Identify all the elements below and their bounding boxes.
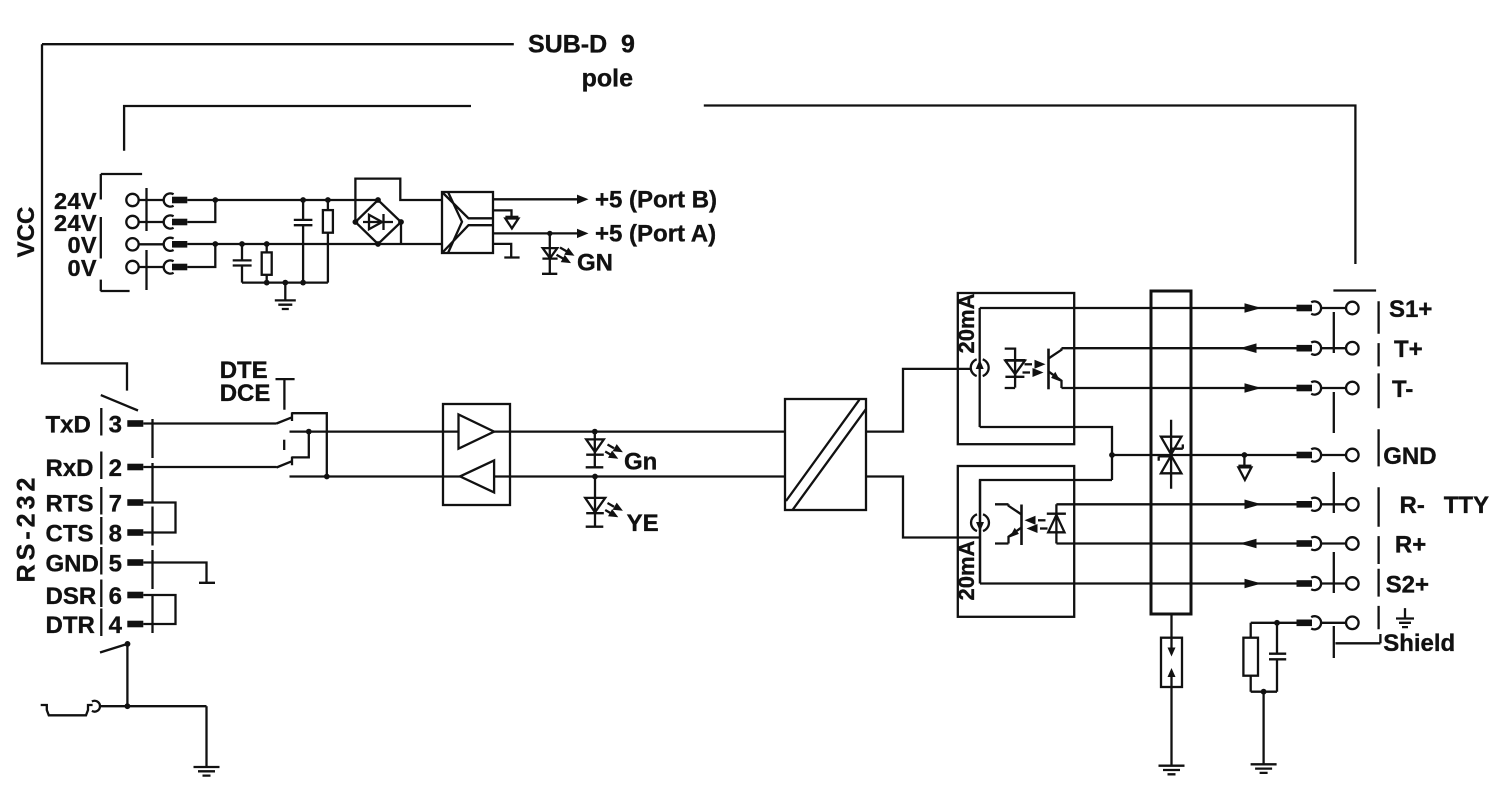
- svg-text:20mA: 20mA: [954, 293, 979, 353]
- ground arrester: [1159, 766, 1185, 775]
- node GND tap dot: [1242, 452, 1248, 458]
- wire bottom filter node: [242, 281, 328, 283]
- wire S2+ terminal: [1321, 582, 1346, 584]
- resistor shield: [1250, 623, 1252, 692]
- wire VCC-to-RS232 left vertical: [42, 44, 127, 390]
- svg-text:Gn: Gn: [624, 448, 657, 475]
- arrowhead R+ (left): [1240, 539, 1257, 549]
- wire S2+ line: [980, 582, 1297, 584]
- terminal circle GND: [1346, 449, 1359, 462]
- node shield cap tap dot: [1274, 620, 1280, 626]
- node junction dot C1 top: [300, 197, 306, 203]
- wire lower loop left vertical: [979, 480, 981, 584]
- svg-text:7: 7: [109, 490, 122, 517]
- svg-text:VCC: VCC: [13, 207, 40, 258]
- pin rect 2: [127, 464, 143, 471]
- terminal pin rect T+: [1297, 345, 1313, 352]
- shield clamp socket arc: [92, 701, 100, 712]
- terminal socket arc row4: [164, 260, 174, 273]
- svg-text:GND: GND: [1383, 443, 1436, 470]
- LED Gn emission arrows: [608, 445, 615, 449]
- terminal pin rect S2+: [1297, 580, 1313, 587]
- TTY connector bracket bottom: [1335, 634, 1380, 643]
- svg-text:0V: 0V: [67, 255, 97, 281]
- node bridge left dot: [353, 219, 359, 225]
- node GND junction dot: [1109, 452, 1115, 458]
- svg-text:6: 6: [109, 583, 122, 610]
- switch actuator T marker: [276, 379, 295, 410]
- ground power filter: [275, 283, 296, 309]
- pin rect 7: [127, 499, 143, 506]
- svg-text:DTR: DTR: [46, 612, 95, 639]
- diode inside bridge: [369, 215, 382, 229]
- wire TxD fixed contact route: [292, 413, 327, 476]
- wire T- line: [1062, 387, 1297, 389]
- node crossover dot upper: [306, 429, 312, 435]
- optocoupler LED upper: [1005, 349, 1026, 388]
- terminal circle 0V-1: [126, 238, 138, 250]
- terminal circle 24V-2: [126, 216, 138, 228]
- terminal pin rect row2: [172, 219, 187, 226]
- wire row2 join to 24V rail: [187, 200, 215, 222]
- terminal socket arc Shield: [1311, 616, 1321, 629]
- phototransistor upper: [1047, 349, 1050, 390]
- wire T+ line: [1062, 347, 1297, 349]
- svg-text:S1+: S1+: [1389, 296, 1432, 323]
- wire +5 Port B output: [493, 198, 579, 200]
- buffer triangle RxD: [460, 460, 494, 492]
- phototransistor emitter arrow upper: [1051, 372, 1060, 382]
- wire +5 Port A output: [493, 232, 579, 234]
- wire 24V rail: [187, 199, 378, 201]
- node junction dot bottom R2: [264, 280, 270, 286]
- LED Gn indicator: [592, 429, 598, 435]
- node bridge right dot: [398, 219, 404, 225]
- terminal socket arc T-: [1311, 381, 1321, 394]
- terminal divider bars right: [1333, 312, 1335, 658]
- svg-text:3: 3: [109, 411, 122, 438]
- node junction dot C2 top: [239, 241, 245, 247]
- TVS diode bidirectional: [1161, 437, 1182, 455]
- wire terminal row4 stub: [139, 266, 164, 268]
- switch blade RxD: [277, 457, 293, 468]
- wire RxD pin to switch: [143, 466, 276, 468]
- arrowhead +5 Port B: [577, 195, 589, 204]
- wire RxD driver to isolation: [510, 475, 785, 477]
- resistor R1: [327, 200, 329, 283]
- svg-text:DSR: DSR: [46, 583, 97, 610]
- wire R- terminal: [1321, 503, 1346, 505]
- arrowhead T+ (left): [1240, 343, 1257, 353]
- current source box lower: [958, 466, 1074, 617]
- node junction dot 0V join: [212, 241, 218, 247]
- current source arrow upper (up): [976, 360, 984, 370]
- wire arrester to ground: [1170, 687, 1172, 766]
- terminal circle S1+: [1346, 302, 1359, 315]
- VCC connector bracket outline (dashed): [101, 174, 143, 291]
- node junction dot R1 top: [325, 197, 331, 203]
- LED GN indicator: [547, 231, 552, 236]
- wire S1+ terminal: [1321, 307, 1346, 309]
- node bridge top dot: [375, 197, 381, 203]
- node RC bottom dot: [1261, 689, 1267, 695]
- node junction dot 24V join: [212, 197, 218, 203]
- wire SUB-D bracket top line: [42, 43, 514, 45]
- label separator bars column: [100, 408, 102, 636]
- TTY connector bracket top: [1333, 289, 1376, 291]
- wire S1+ line: [980, 307, 1297, 309]
- svg-text:GND: GND: [46, 550, 99, 577]
- wire GND pin 5 chassis stub: [143, 563, 215, 583]
- RS-232 transceiver box: [443, 404, 510, 505]
- wire lower stub to chassis bar: [493, 244, 520, 258]
- signal reference triangle GND row: [1243, 455, 1245, 467]
- wire shell to shield rail: [126, 644, 128, 706]
- terminal circle 24V-1: [126, 194, 138, 206]
- pin rect 8: [127, 529, 143, 536]
- ground shield left: [194, 767, 220, 776]
- wire terminal row2 stub: [139, 221, 164, 223]
- svg-text:T-: T-: [1392, 376, 1413, 403]
- svg-text:4: 4: [109, 612, 123, 639]
- wire lower loop top from GND node: [980, 480, 1112, 584]
- svg-text:R-: R-: [1400, 492, 1425, 519]
- wire terminal row1 stub: [139, 199, 164, 201]
- optocoupler light arrows upper (pointing right): [1025, 363, 1033, 365]
- wire reference stub to signal ground arrow: [493, 210, 512, 218]
- ground symbol shield terminal: [1396, 608, 1414, 627]
- DC/DC Y symbol: [442, 192, 493, 253]
- terminal circle R+: [1346, 537, 1359, 550]
- transient protection block: [1151, 291, 1191, 614]
- terminal socket arc row3: [164, 238, 174, 251]
- svg-text:TxD: TxD: [46, 411, 91, 438]
- node junction dot bottom C1: [300, 280, 306, 286]
- terminal pin rect R+: [1297, 540, 1313, 547]
- DC/DC converter box: [442, 192, 493, 253]
- svg-text:R+: R+: [1395, 531, 1426, 558]
- svg-text:SUB-D 9: SUB-D 9: [528, 31, 635, 59]
- capacitor shield: [1269, 623, 1286, 692]
- terminal socket arc row2: [164, 215, 174, 228]
- terminal circle T+: [1346, 342, 1359, 355]
- terminal divider bar row 4: [145, 250, 147, 290]
- wire TxD output line: [290, 430, 443, 432]
- resistor R2: [266, 244, 268, 283]
- LED YE indicator: [592, 474, 598, 480]
- svg-text:20mA: 20mA: [954, 540, 979, 600]
- wire R+ terminal: [1321, 542, 1346, 544]
- wire upper loop bottom to GND node: [980, 427, 1112, 480]
- wire upper loop left vertical: [979, 308, 981, 427]
- terminal pin rect GND: [1297, 452, 1313, 459]
- terminal circle S2+: [1346, 577, 1359, 590]
- terminal pin rect S1+: [1297, 305, 1313, 312]
- wire bridge bypass bump: [355, 179, 442, 222]
- terminal pin rect Shield: [1297, 620, 1313, 627]
- wire GND terminal: [1321, 454, 1346, 456]
- TTY connector bracket dashes: [1377, 301, 1379, 629]
- wire RC to ground: [1262, 692, 1264, 765]
- terminal socket arc row1: [164, 193, 174, 206]
- terminal divider bar rows 1-2: [145, 188, 147, 231]
- svg-text:+5 (Port B): +5 (Port B): [595, 187, 717, 214]
- pin rect 6: [127, 592, 143, 599]
- terminal socket arc T+: [1311, 342, 1321, 355]
- wire row4 join to 0V rail: [187, 244, 215, 267]
- terminal circle Shield: [1346, 617, 1359, 630]
- svg-text:pole: pole: [582, 65, 633, 93]
- optocoupler light arrows lower (pointing left): [1038, 519, 1046, 521]
- terminal pin rect row3: [172, 241, 187, 248]
- current source circle upper: [971, 359, 989, 376]
- pin rect 4: [127, 621, 143, 628]
- wire RxD output line: [290, 475, 443, 477]
- wire T- terminal: [1321, 387, 1346, 389]
- wire inner bracket left part: [124, 106, 471, 151]
- wire inner bracket right part to TTY side: [704, 106, 1356, 265]
- switch gang link dash: [283, 440, 285, 450]
- rectifier bridge diamond: [355, 200, 401, 244]
- capacitor C2: [233, 244, 252, 283]
- svg-text:8: 8: [109, 520, 122, 547]
- svg-text:GN: GN: [577, 249, 613, 276]
- signal reference triangle symbol: [505, 219, 518, 229]
- terminal socket arc S2+: [1311, 577, 1321, 590]
- optocoupler diode lower: [1047, 504, 1066, 543]
- svg-text:TTY: TTY: [1444, 492, 1489, 519]
- wire shield RC bottom: [1251, 691, 1277, 693]
- wire T+ terminal: [1321, 347, 1346, 349]
- arrowhead R- (right): [1245, 500, 1262, 510]
- wire TxD driver to isolation: [510, 430, 785, 432]
- terminal circle T-: [1346, 382, 1359, 395]
- wire isolation to upper 20mA loop: [866, 369, 971, 432]
- terminal pin rect R-: [1297, 501, 1313, 508]
- wire 0V to DC/DC: [378, 243, 442, 245]
- node junction dot bottom gnd: [282, 280, 288, 286]
- pin rect 3: [127, 420, 143, 427]
- LED GN emission arrows: [560, 248, 567, 252]
- node crossover dot lower: [324, 474, 330, 480]
- RS-232 connector outline bottom slant: [100, 644, 128, 653]
- node connector shell dot: [125, 641, 131, 647]
- svg-text:RxD: RxD: [46, 455, 94, 482]
- svg-text:+5 (Port A): +5 (Port A): [595, 221, 716, 248]
- node junction dot R2 top: [264, 241, 270, 247]
- svg-text:CTS: CTS: [46, 520, 94, 547]
- svg-text:T+: T+: [1394, 336, 1423, 363]
- svg-text:S2+: S2+: [1386, 571, 1429, 598]
- svg-text:DCE: DCE: [220, 380, 271, 407]
- capacitor C1: [294, 200, 313, 283]
- wire TxD pin to switch: [143, 422, 276, 424]
- wire 0V rail: [187, 243, 378, 245]
- wire bridge right corner drop: [400, 222, 402, 244]
- wire shield rail to ground: [205, 706, 207, 767]
- cable shield clamp symbol: [41, 705, 93, 715]
- RS-232 connector outline top slant: [101, 395, 138, 410]
- svg-text:YE: YE: [627, 510, 659, 537]
- ground shield RC: [1251, 764, 1277, 773]
- svg-text:RS-232: RS-232: [13, 474, 41, 583]
- switch blade TxD: [277, 413, 293, 424]
- arrowhead +5 Port A: [577, 229, 589, 238]
- arrowhead S1+ (right): [1245, 303, 1262, 313]
- current source circle lower: [971, 514, 989, 531]
- isolation stripe diagonals: [786, 400, 866, 510]
- terminal socket arc R-: [1311, 498, 1321, 511]
- terminal circle R-: [1346, 498, 1359, 511]
- pin rect 5: [127, 559, 143, 566]
- terminal circle 0V-2: [126, 261, 138, 273]
- terminal socket arc S1+: [1311, 301, 1321, 314]
- arrowhead T- (right): [1245, 383, 1262, 393]
- svg-text:RTS: RTS: [46, 490, 94, 517]
- wire GND line: [1112, 454, 1297, 456]
- wire DSR-DTR jumper: [143, 595, 175, 624]
- phototransistor emitter arrow lower: [1010, 528, 1019, 538]
- arrowhead S2+ (right): [1245, 579, 1262, 589]
- terminal pin rect row1: [172, 197, 187, 204]
- current source box upper: [958, 293, 1074, 444]
- terminal socket arc GND: [1311, 448, 1321, 461]
- wire shield row: [1251, 622, 1297, 624]
- wire R+ line: [1056, 542, 1296, 544]
- phototransistor lower (mirrored): [1020, 505, 1023, 546]
- LED YE emission arrows: [608, 503, 615, 507]
- wire isolation to lower 20mA loop: [866, 477, 980, 538]
- buffer triangle TxD: [459, 415, 495, 449]
- wire Shield terminal: [1321, 622, 1346, 624]
- terminal socket arc R+: [1311, 537, 1321, 550]
- wire R- line: [1056, 503, 1296, 505]
- node bridge bottom dot: [375, 241, 381, 247]
- svg-text:5: 5: [109, 550, 122, 577]
- terminal pin rect T-: [1297, 385, 1313, 392]
- wire RTS-CTS jumper: [143, 503, 175, 533]
- terminal pin rect row4: [172, 264, 187, 271]
- svg-text:Shield: Shield: [1383, 630, 1455, 657]
- surge arrester: [1170, 614, 1172, 638]
- wire shield rail: [101, 705, 207, 707]
- wire crossover down link: [292, 432, 309, 458]
- RS-232 connector outline dashed column: [151, 419, 153, 633]
- wire terminal row3 stub: [139, 243, 164, 245]
- current source arrow lower (down): [976, 522, 984, 532]
- node shield rail dot: [125, 703, 131, 709]
- isolation transformer box: [785, 399, 866, 510]
- svg-text:2: 2: [109, 455, 122, 482]
